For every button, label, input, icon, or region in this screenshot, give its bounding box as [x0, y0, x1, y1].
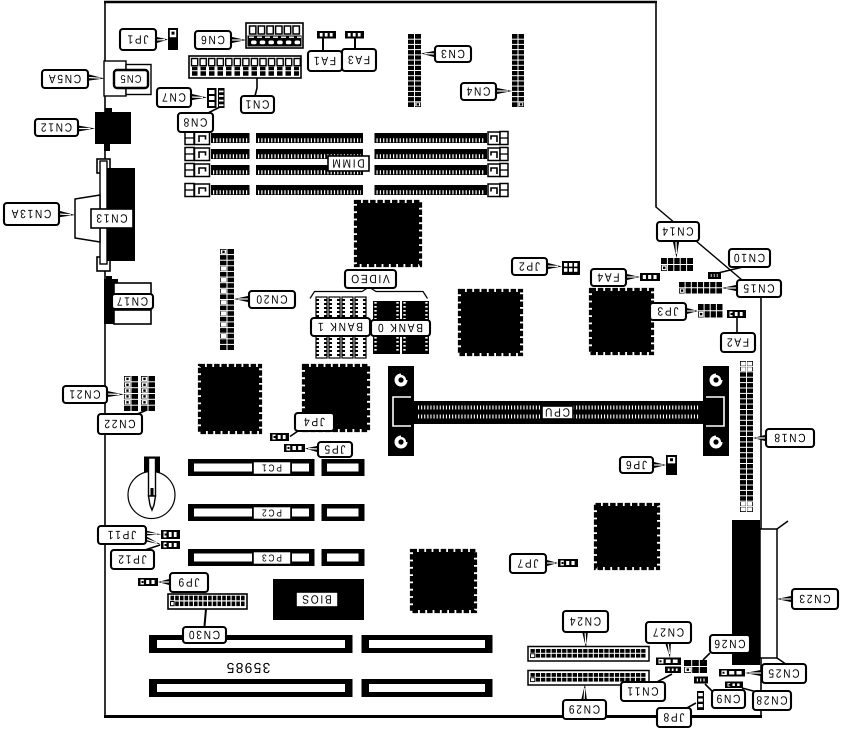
wire JP6 arrow	[653, 462, 666, 468]
board number 35985	[227, 663, 270, 673]
wire JP7 arrow	[546, 560, 558, 566]
label JP1	[120, 29, 156, 50]
wire CN24 link	[582, 631, 588, 648]
label FA1	[308, 51, 342, 71]
connector CN29	[528, 671, 649, 686]
wire JP12 link	[142, 545, 160, 551]
label CN20	[249, 291, 295, 308]
wire CN9 link	[705, 684, 712, 691]
label JP5	[318, 442, 352, 457]
connector CN15 block	[679, 282, 722, 294]
ISA slot 2	[149, 679, 353, 697]
label CN11	[621, 682, 665, 701]
jumper strip CN22	[141, 376, 155, 411]
wire board outline diagonal edge	[656, 207, 762, 297]
jumper JP11 b	[161, 541, 180, 549]
wire JP5 arrow	[305, 446, 318, 452]
wire CN27 link	[665, 642, 671, 658]
connector CN25 part	[719, 669, 745, 677]
memory BANK 0 chips	[373, 301, 400, 321]
jumper JP3 block	[698, 304, 723, 318]
connector CN28 part	[725, 682, 743, 689]
connector CN5 keyboard	[104, 61, 126, 96]
label CN7	[157, 88, 191, 107]
jumper JP11 a	[161, 530, 180, 539]
wire CN20 arrow	[234, 296, 249, 302]
label BIOS	[296, 592, 338, 607]
chip C2	[461, 292, 520, 353]
label FA4	[591, 269, 626, 286]
label CN24	[563, 611, 608, 632]
connector CN24	[528, 647, 649, 662]
wire CN8 link	[206, 107, 220, 114]
chip video controller	[357, 203, 419, 264]
jumper CN7 block	[207, 88, 217, 108]
label CN8	[178, 113, 213, 132]
label CN6	[195, 31, 231, 49]
label CN3	[435, 46, 471, 62]
wire JP3 arrow	[686, 308, 698, 314]
wire CN28 link	[742, 688, 757, 692]
wire CN18 arrow	[753, 435, 766, 441]
connector DIMM slot 1	[185, 132, 194, 145]
ISA slot 1	[149, 635, 353, 653]
PCI slot PC1	[188, 459, 315, 476]
label JP12	[111, 550, 154, 569]
wire CN14 arrow	[673, 241, 679, 258]
label JP8	[657, 708, 691, 727]
label JP6	[620, 457, 653, 473]
connector CN9 part	[694, 677, 708, 684]
label JP7	[510, 554, 546, 573]
jumper JP4	[270, 433, 289, 441]
fuse FA1	[317, 31, 336, 39]
wire JP9 arrow	[158, 579, 170, 585]
label CN30	[183, 627, 226, 643]
wire CN30 link	[205, 609, 207, 626]
label DIMM	[328, 156, 369, 171]
jumper strip CN21	[124, 376, 138, 411]
wire board outline top edge	[104, 1, 657, 3]
label FA2	[721, 333, 755, 352]
label CPU	[542, 406, 573, 419]
wire JP1 arrow	[156, 37, 168, 43]
CPU slot body	[414, 401, 705, 424]
wire board outline right edge lower	[760, 296, 762, 717]
wire CN26 link	[703, 653, 710, 660]
connector CN14 block	[661, 258, 693, 271]
label FA3	[342, 49, 376, 71]
PCI slot PC3	[188, 549, 315, 566]
label CN22	[98, 414, 142, 434]
connector CN12 power	[95, 112, 131, 144]
chip C3	[592, 291, 651, 352]
label CN5	[114, 70, 148, 88]
wire CN4 arrow	[496, 88, 512, 94]
label CN13	[91, 209, 133, 228]
fuse CN10 part	[708, 272, 721, 279]
chip BIOS	[273, 579, 364, 620]
label CN9	[712, 690, 745, 708]
connector CN13 serial-parallel port	[97, 159, 110, 173]
label BANK 0	[371, 320, 430, 336]
label JP11	[98, 526, 146, 544]
connector CN20	[220, 249, 234, 350]
brace for BANK labels	[310, 287, 428, 299]
fuse FA2	[727, 310, 746, 318]
connector CN6	[246, 23, 303, 48]
connector CN17	[106, 276, 112, 280]
label CN25	[762, 664, 806, 683]
wire FA4 arrow	[626, 274, 640, 280]
wire CN13A arrow	[59, 211, 75, 217]
connector DIMM slot 3	[185, 164, 194, 177]
jumper JP1	[168, 28, 178, 50]
wire JP4 link	[290, 431, 298, 437]
wire FA2 link	[736, 318, 738, 333]
wire CN5A arrow	[88, 74, 105, 80]
wire JP2 arrow	[547, 263, 562, 269]
wire CN21 arrow	[106, 391, 124, 397]
wire board outline right edge upper	[655, 2, 657, 208]
label CN1	[241, 96, 274, 113]
wire CN6 arrow	[231, 37, 246, 43]
label JP4	[295, 413, 334, 431]
label CN15	[737, 280, 781, 297]
label CN29	[563, 700, 606, 719]
label JP3	[650, 303, 686, 320]
label CN17	[112, 294, 153, 309]
memory BANK 1 sockets	[316, 297, 327, 322]
jumper JP2	[562, 261, 580, 275]
wire FA3 link	[354, 37, 356, 50]
label JP9	[170, 573, 208, 592]
chip C6	[413, 552, 474, 610]
wire CN12 arrow	[77, 125, 95, 132]
connector CN11 part	[665, 667, 681, 674]
wire CN10 link	[718, 266, 747, 273]
label CN21	[63, 386, 107, 403]
battery	[128, 472, 175, 519]
jumper JP5	[284, 444, 305, 452]
label CN12	[35, 119, 78, 136]
label CN27	[646, 622, 691, 643]
connector CN30	[168, 594, 247, 609]
connector CN26 part	[684, 660, 707, 673]
connector DIMM slot 2	[185, 148, 194, 161]
label VIDEO	[345, 270, 396, 288]
wire CN15 arrow	[722, 285, 737, 291]
chip C7	[597, 506, 657, 567]
label CN14	[657, 222, 699, 241]
fuse FA3	[345, 31, 364, 39]
jumper JP8	[697, 691, 704, 710]
connector CN27 part	[656, 658, 681, 666]
label CN5A	[42, 70, 88, 88]
CPU slot left bracket	[388, 366, 414, 456]
label CN18	[766, 429, 814, 447]
wire CN7 arrow	[191, 94, 207, 100]
fuse FA4	[640, 273, 660, 281]
wire board outline bottom edge	[104, 715, 762, 718]
chip C4	[201, 367, 259, 431]
label CN4	[461, 83, 496, 100]
wire CN1 link	[255, 78, 257, 96]
label JP2	[512, 258, 547, 275]
label CN13A	[4, 203, 59, 225]
wire CN25 arrow	[745, 670, 762, 676]
wire CN11 link	[655, 674, 672, 683]
connector DIMM slot 4	[185, 184, 194, 197]
wire CN23 arrow	[777, 596, 792, 602]
connector CN1	[189, 56, 301, 78]
wire CN3 arrow	[421, 51, 435, 57]
connector CN23 block	[732, 520, 760, 665]
wire board outline left edge	[104, 1, 106, 717]
label CN23	[792, 589, 838, 609]
connector CN4	[512, 34, 524, 107]
jumper JP6	[666, 455, 677, 475]
jumper JP7	[558, 559, 578, 567]
CPU slot right bracket	[703, 366, 729, 456]
chip C5	[305, 367, 367, 429]
label CN10	[729, 249, 770, 267]
connector CN3	[408, 34, 421, 107]
label CN26	[710, 635, 750, 653]
wire JP11 arrows	[146, 531, 161, 536]
jumper JP9	[138, 578, 158, 586]
label CN28	[753, 691, 791, 710]
wire JP8 link	[685, 703, 696, 709]
wire CN29 link	[581, 684, 587, 701]
PCI slot PC2	[188, 504, 315, 521]
wire FA1 link	[322, 37, 324, 52]
label BANK 1	[311, 318, 370, 336]
wire CN22 link	[135, 410, 147, 415]
connector CN18 strip	[740, 361, 753, 512]
